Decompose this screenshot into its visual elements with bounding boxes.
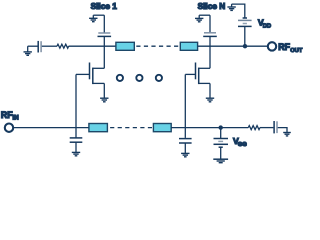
wire (gate line right) bbox=[171, 127, 248, 129]
wire bbox=[42, 45, 57, 47]
resistor (drain-line termination) bbox=[57, 44, 69, 48]
transmission line (gate, slice N) bbox=[153, 124, 171, 132]
wire (gate line left) bbox=[14, 127, 89, 129]
svg-text:GG: GG bbox=[238, 142, 248, 148]
resistor (gate-line termination) bbox=[248, 126, 260, 130]
ground (VDD top) bbox=[227, 4, 235, 10]
transistor M1 (slice 1) bbox=[76, 63, 104, 85]
capacitor (gate termination coupling cap) bbox=[274, 121, 277, 133]
battery VGG bbox=[214, 139, 229, 148]
svg-text:DD: DD bbox=[263, 24, 271, 30]
svg-text:IN: IN bbox=[13, 115, 19, 122]
ground (slice N top) bbox=[195, 15, 210, 22]
wire (M1 gate stem) bbox=[75, 74, 77, 137]
wire bbox=[244, 26, 246, 46]
capacitor (slice N drain bypass) bbox=[203, 33, 217, 37]
wire (MN source) bbox=[209, 83, 211, 98]
ground (drain-line termination, top left) bbox=[24, 46, 32, 55]
svg-text:Slice 1: Slice 1 bbox=[91, 1, 118, 11]
capacitor (drain termination coupling cap) bbox=[38, 41, 41, 53]
wire bbox=[28, 45, 38, 47]
svg-text:RF: RF bbox=[1, 110, 13, 120]
wire (drain line left) bbox=[69, 45, 116, 47]
node RF_OUT terminal bbox=[268, 42, 276, 50]
ground (slice N gate cap) bbox=[181, 153, 189, 156]
wire bbox=[220, 128, 222, 139]
wire bbox=[220, 147, 222, 159]
wire bbox=[103, 15, 105, 33]
capacitor (slice N gate shunt) bbox=[179, 139, 192, 143]
wire (gate dashed) bbox=[110, 127, 152, 129]
ground (slice 1 top) bbox=[89, 15, 104, 22]
wire (M1 source) bbox=[103, 83, 105, 98]
wire (drain dashed) bbox=[136, 45, 178, 47]
ground (MN source) bbox=[206, 98, 214, 102]
wire bbox=[232, 4, 245, 18]
ground (gate termination) bbox=[283, 133, 291, 136]
wire (slice N drain stem) bbox=[209, 36, 211, 68]
wire bbox=[75, 142, 77, 152]
transmission line (gate, slice 1) bbox=[89, 124, 108, 132]
wire bbox=[260, 127, 274, 129]
svg-text:Slice N: Slice N bbox=[198, 1, 226, 11]
ground (VGG) bbox=[213, 159, 228, 163]
ground (slice 1 gate cap) bbox=[72, 152, 80, 155]
wire (MN gate stem) bbox=[184, 74, 186, 137]
wire bbox=[184, 143, 186, 153]
wire (drain line right) bbox=[198, 45, 267, 47]
node junction (gate / VGG) bbox=[219, 125, 223, 129]
transistor MN (slice N) bbox=[185, 63, 210, 85]
wire bbox=[209, 15, 211, 33]
ground (M1 source) bbox=[100, 98, 108, 102]
wire (slice 1 drain stem) bbox=[103, 36, 105, 68]
node ellipsis circles bbox=[117, 75, 162, 81]
transmission line (drain, slice N) bbox=[180, 42, 197, 50]
node RF_IN terminal bbox=[5, 124, 13, 132]
capacitor (slice 1 drain bypass) bbox=[98, 33, 112, 36]
node junction (drain / VDD) bbox=[243, 44, 247, 48]
wire bbox=[278, 128, 287, 133]
transmission line (drain, slice 1) bbox=[116, 42, 134, 50]
battery VDD bbox=[238, 18, 252, 26]
capacitor (slice 1 gate shunt) bbox=[70, 138, 83, 142]
svg-text:RF: RF bbox=[278, 42, 290, 52]
svg-text:OUT: OUT bbox=[290, 48, 303, 54]
